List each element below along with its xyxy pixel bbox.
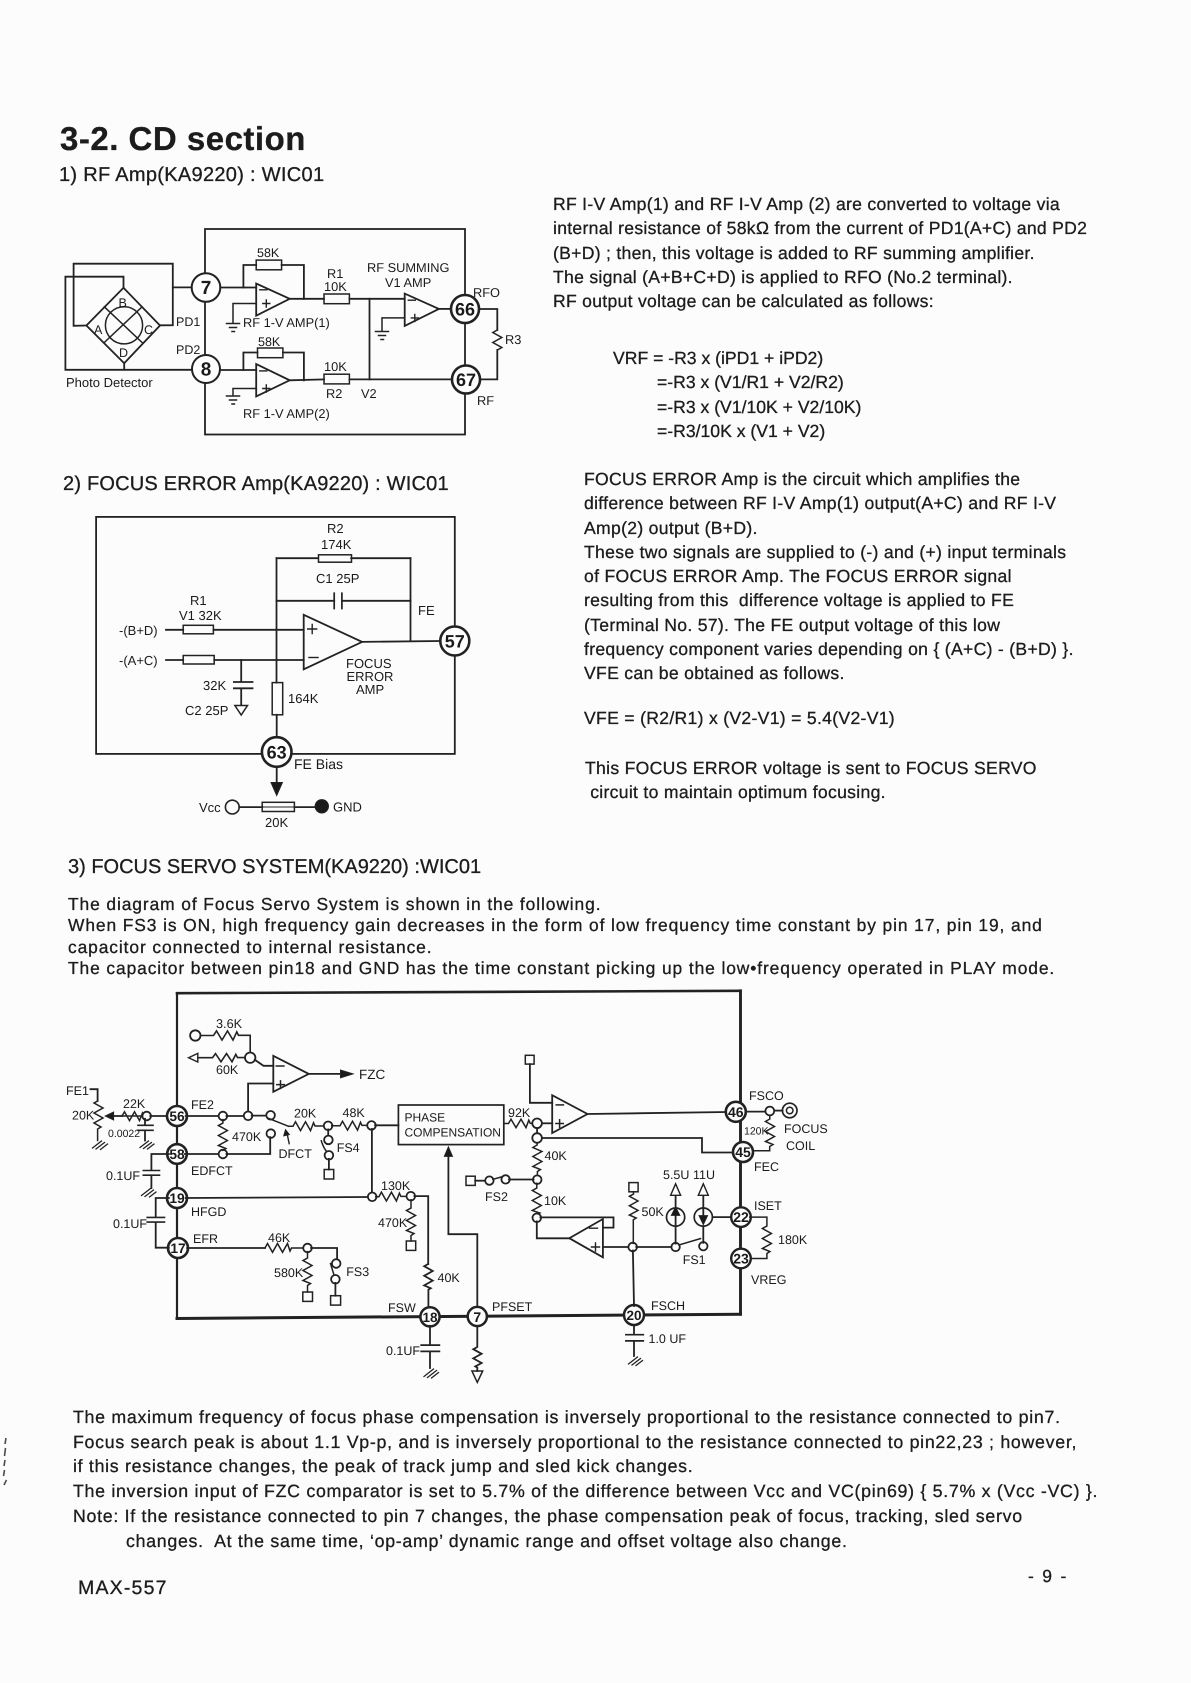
heading 3 <box>68 856 481 879</box>
svg-text:PHASE: PHASE <box>405 1111 446 1125</box>
label 0.1UF mid <box>113 1217 147 1231</box>
svg-text:D: D <box>119 346 128 360</box>
svg-text:130K: 130K <box>381 1179 411 1193</box>
svg-text:0.1UF: 0.1UF <box>386 1344 420 1358</box>
resistor below node 7 servo <box>472 1326 483 1382</box>
resistor 20K <box>239 802 315 811</box>
EDFCT wire <box>185 1153 220 1155</box>
FSCO wire and terminal <box>746 1103 797 1118</box>
label RF 1-V AMP(2) <box>243 406 330 421</box>
op-amp FZC comparator <box>273 1056 309 1092</box>
resistor 580K <box>303 1252 313 1302</box>
resistor R3 zigzag <box>493 330 502 350</box>
svg-text:C1 25P: C1 25P <box>316 571 359 586</box>
FS1 right contact <box>699 1242 707 1250</box>
feedback riser amp1 <box>243 265 256 288</box>
label FS4 <box>337 1141 360 1155</box>
svg-text:20K: 20K <box>265 815 288 830</box>
resistor 164K vertical <box>272 683 283 715</box>
right column paragraph 1 <box>553 192 1087 313</box>
FE2 wire cont2 <box>252 1115 267 1117</box>
wire -(B+D) input <box>166 629 304 631</box>
resistor 92K <box>504 1119 533 1127</box>
comparator FSCH <box>569 1219 603 1257</box>
svg-text:10K: 10K <box>544 1194 567 1208</box>
resistor 58K amp2 <box>258 348 283 358</box>
node 7 <box>192 273 221 302</box>
label FS3 <box>346 1265 369 1279</box>
resistor 130K <box>376 1192 407 1201</box>
svg-text:FSCH: FSCH <box>651 1299 685 1313</box>
FE2 wire cont <box>227 1115 245 1117</box>
label 20K series <box>294 1107 317 1121</box>
label 3.6K <box>216 1017 243 1031</box>
node 58 <box>167 1144 187 1164</box>
svg-text:48K: 48K <box>343 1106 366 1120</box>
feedback riser amp2 <box>243 353 257 371</box>
svg-text:22K: 22K <box>123 1097 146 1111</box>
svg-text:FEC: FEC <box>754 1160 779 1174</box>
node 56 <box>167 1106 187 1126</box>
svg-text:20K: 20K <box>294 1107 317 1121</box>
DFCT switch blade <box>268 1118 289 1126</box>
svg-text:56: 56 <box>169 1109 185 1124</box>
label -(A+C) <box>119 653 158 668</box>
label VREG <box>751 1273 786 1287</box>
svg-text:COIL: COIL <box>786 1139 815 1153</box>
FS1 left contact <box>671 1243 679 1251</box>
node 22 <box>731 1207 751 1227</box>
label R3 <box>505 332 521 347</box>
label 10K above R2 <box>324 359 347 374</box>
resistor R2 10K <box>324 374 349 384</box>
wire 130K to 40K riser <box>414 1196 428 1264</box>
ground hatch pot <box>93 1141 108 1150</box>
EDFCT wire to DFCT <box>227 1137 271 1154</box>
label V1 32K <box>179 608 222 623</box>
label Photo Detector <box>66 375 153 390</box>
resistor lower input <box>183 656 214 665</box>
svg-text:92K: 92K <box>508 1106 531 1120</box>
FE1 lead <box>91 1089 98 1101</box>
label R2 below <box>326 386 342 401</box>
svg-text:Photo Detector: Photo Detector <box>66 375 153 390</box>
svg-text:B: B <box>119 296 127 310</box>
wire node66 to R3 <box>479 309 497 330</box>
svg-text:58K: 58K <box>257 246 280 260</box>
svg-text:32K: 32K <box>203 678 226 693</box>
label 10K chain <box>544 1194 567 1208</box>
op-amp RF summing V1 <box>405 294 439 326</box>
label RFO <box>473 285 500 300</box>
label 0.1UF node18 <box>386 1344 420 1358</box>
svg-text:67: 67 <box>456 370 476 390</box>
svg-text:5.5U: 5.5U <box>663 1168 689 1182</box>
label 48K <box>343 1106 366 1120</box>
svg-text:20K: 20K <box>72 1109 95 1123</box>
FS3 switch <box>331 1259 341 1305</box>
svg-text:17: 17 <box>170 1241 186 1256</box>
junction circle FS4 <box>324 1122 333 1131</box>
svg-text:ISET: ISET <box>754 1199 782 1213</box>
label RF 1-V AMP(1) <box>243 315 330 330</box>
junction circle 92K <box>532 1119 542 1129</box>
label 32K <box>203 678 226 693</box>
svg-text:174K: 174K <box>321 537 352 552</box>
svg-text:58K: 58K <box>258 335 281 349</box>
label 180K <box>778 1233 808 1247</box>
DFCT switch bottom contact <box>267 1129 276 1138</box>
PFSET feedback path with up arrow <box>444 1147 477 1307</box>
DFCT annotation arrow <box>284 1130 290 1144</box>
junction circle 3.6K/60K <box>245 1053 255 1063</box>
junction circle 130K right <box>407 1192 416 1201</box>
label FOCUS COIL <box>784 1122 828 1153</box>
svg-text:FS3: FS3 <box>346 1265 369 1279</box>
label 1.0UF <box>649 1332 687 1346</box>
label 470K <box>232 1130 262 1144</box>
right column paragraph 3 <box>585 756 1037 805</box>
svg-text:580K: 580K <box>274 1266 304 1280</box>
label C2 25P <box>185 703 228 718</box>
resistor 46K <box>265 1244 304 1253</box>
label 5.5U <box>663 1168 689 1182</box>
resistor 40K to FSW <box>424 1264 433 1306</box>
label PD1 <box>176 315 200 329</box>
label FE1 <box>66 1084 89 1098</box>
capacitor 0.1UF node18 <box>421 1326 439 1378</box>
label 164K <box>288 691 319 706</box>
op-amp FSCO driver <box>552 1095 587 1133</box>
label FZC <box>359 1067 385 1082</box>
GND terminal <box>315 800 362 815</box>
node 8 <box>192 355 220 383</box>
svg-text:FE1: FE1 <box>66 1084 89 1098</box>
wire FSCO amp out to node 46 <box>588 1112 727 1114</box>
svg-text:FZC: FZC <box>359 1067 385 1082</box>
svg-text:VREG: VREG <box>751 1273 786 1287</box>
node 63 <box>262 737 292 767</box>
svg-text:20: 20 <box>626 1308 641 1323</box>
label FE <box>418 603 435 618</box>
svg-text:57: 57 <box>445 632 465 652</box>
wire amp2 out to R2 <box>290 378 324 381</box>
op-amp RF 1-V AMP(1) <box>256 284 290 316</box>
resistor 470K lower <box>406 1200 415 1251</box>
photo detector circle <box>105 307 142 344</box>
label 58K amp1 <box>257 246 280 260</box>
wire 50K junction to FS1 <box>636 1246 672 1248</box>
svg-text:RF 1-V AMP(2): RF 1-V AMP(2) <box>243 406 330 421</box>
resistor 22K <box>122 1112 144 1121</box>
label 60K <box>216 1063 239 1077</box>
label EDFCT <box>191 1164 233 1178</box>
svg-text:45: 45 <box>735 1144 751 1160</box>
label PD2 <box>176 343 200 357</box>
heading 1 <box>59 164 324 187</box>
svg-text:EDFCT: EDFCT <box>191 1164 233 1178</box>
label FE Bias <box>294 756 343 772</box>
junction circle FS2 <box>533 1175 542 1184</box>
wire 50K junction down to node 20 <box>633 1251 634 1306</box>
label 120K <box>744 1126 769 1138</box>
node 7 servo <box>468 1307 487 1326</box>
label ISET <box>754 1199 782 1213</box>
FS4 switch <box>321 1129 333 1179</box>
resistor 60K <box>198 1054 245 1062</box>
op-amp FOCUS ERROR AMP <box>304 615 362 670</box>
svg-text:22: 22 <box>733 1209 749 1225</box>
label R1 <box>324 266 347 294</box>
ground summing amp <box>376 318 405 340</box>
label EFR <box>193 1232 218 1246</box>
capacitor C1 <box>277 593 411 608</box>
resistor 3.6K <box>201 1031 251 1053</box>
wire R1 to summing input <box>349 298 404 300</box>
label 580K <box>274 1266 304 1280</box>
svg-text:40K: 40K <box>545 1149 568 1163</box>
label RF <box>477 393 494 408</box>
svg-text:R2: R2 <box>326 386 342 401</box>
feedback right riser <box>410 558 412 641</box>
svg-text:470K: 470K <box>378 1216 408 1230</box>
svg-text:C2 25P: C2 25P <box>185 703 228 718</box>
svg-text:PFSET: PFSET <box>492 1300 533 1314</box>
wire amp1 out to R1 <box>290 298 324 300</box>
svg-text:40K: 40K <box>438 1271 461 1285</box>
current source 5.5U <box>667 1184 685 1244</box>
resistor R1 10K <box>324 294 349 304</box>
node 45 <box>733 1142 753 1162</box>
wire 11U to node 22 <box>712 1216 732 1218</box>
svg-text:AMP: AMP <box>356 682 384 697</box>
label 58K amp2 <box>258 335 281 349</box>
EFR wire <box>187 1247 265 1249</box>
svg-text:-(A+C): -(A+C) <box>119 653 158 668</box>
svg-text:FE: FE <box>418 603 435 618</box>
svg-text:164K: 164K <box>288 691 319 706</box>
label FOCUS ERROR AMP <box>346 656 393 697</box>
FZC output arrow <box>309 1070 353 1078</box>
resistor R2 174K <box>319 555 352 562</box>
svg-text:8: 8 <box>201 360 212 381</box>
junction circle 10K bottom <box>533 1214 542 1223</box>
label 20K pot <box>72 1109 95 1123</box>
junction circle 48K right <box>367 1121 376 1130</box>
svg-text:FSW: FSW <box>388 1301 416 1315</box>
label R1 <box>190 593 207 608</box>
svg-text:46K: 46K <box>268 1231 291 1245</box>
label FSCO <box>749 1089 784 1103</box>
svg-text:7: 7 <box>473 1309 481 1325</box>
label RF SUMMING V1 AMP <box>367 260 449 290</box>
node 18 <box>420 1307 439 1326</box>
IC boundary box schematic2 <box>96 517 455 754</box>
svg-text:66: 66 <box>455 300 475 320</box>
svg-text:FS4: FS4 <box>337 1141 360 1155</box>
wire 164K to node 63 <box>276 715 278 737</box>
resistor 40K vertical chain <box>533 1143 542 1176</box>
footer <box>78 1577 168 1600</box>
label FS1 <box>683 1253 706 1267</box>
svg-text:Vcc: Vcc <box>199 800 221 815</box>
resistor 58K amp1 <box>256 260 281 270</box>
right column paragraph 2 <box>584 467 1074 686</box>
svg-text:60K: 60K <box>216 1063 239 1077</box>
capacitor 0.1UF between 19 and 17 <box>147 1198 169 1248</box>
IC boundary box schematic3 <box>177 991 741 1319</box>
summing junction vertical <box>369 299 371 380</box>
svg-text:19: 19 <box>169 1191 185 1206</box>
svg-text:63: 63 <box>267 743 287 763</box>
label 130K <box>381 1179 411 1193</box>
junction circle 46K right <box>303 1244 312 1253</box>
junction circle FZC plus <box>244 1112 253 1121</box>
svg-text:PD1: PD1 <box>176 315 200 329</box>
feedback right side amp2 <box>283 353 304 381</box>
label 0.0022 <box>108 1128 140 1140</box>
label 174K <box>321 537 352 552</box>
label 0.1UF node58 <box>106 1169 140 1183</box>
wire 10K junction to comparator output <box>537 1221 570 1238</box>
label 11U <box>693 1168 715 1182</box>
bottom paragraph <box>73 1405 1098 1553</box>
photo detector X lines <box>104 307 142 343</box>
wire 46K to FS3 <box>311 1248 337 1260</box>
junction circle FEC tap <box>532 1128 542 1143</box>
FE2 wire <box>186 1115 220 1117</box>
wire into phase box <box>375 1124 398 1126</box>
svg-text:R3: R3 <box>505 332 521 347</box>
servo system paragraph <box>68 894 1055 980</box>
svg-text:FE2: FE2 <box>191 1098 214 1112</box>
VRF equations <box>613 346 861 444</box>
label FSW <box>388 1301 416 1315</box>
svg-text:1.0 UF: 1.0 UF <box>649 1332 687 1346</box>
feedback right side amp1 <box>282 265 304 299</box>
feedback top branch <box>277 557 411 559</box>
svg-text:RFO: RFO <box>473 285 500 300</box>
svg-text:C: C <box>144 323 153 337</box>
svg-text:46: 46 <box>728 1104 744 1120</box>
resistor 48K <box>332 1121 368 1130</box>
capacitor 0.1UF node58 <box>142 1154 169 1197</box>
FZC plus input wire to FE2 <box>248 1084 273 1113</box>
label 22K <box>123 1097 146 1111</box>
arrow below node 63 <box>271 768 282 796</box>
svg-text:0.1UF: 0.1UF <box>113 1217 147 1231</box>
svg-text:0.1UF: 0.1UF <box>106 1169 140 1183</box>
junction circle 50K <box>628 1243 637 1252</box>
svg-text:FS1: FS1 <box>683 1253 706 1267</box>
wire to node 56 <box>150 1115 168 1117</box>
FS2 switch <box>466 1175 534 1185</box>
ground amp1 <box>227 304 257 332</box>
svg-text:COMPENSATION: COMPENSATION <box>405 1125 501 1139</box>
wiper arrow into pot <box>106 1112 123 1120</box>
wire 10K junction to comparator minus <box>540 1217 613 1227</box>
wire -(A+C) input <box>166 659 304 661</box>
resistor 20K series <box>289 1122 325 1131</box>
HFGD wire <box>186 1197 369 1198</box>
feedback left riser <box>276 558 278 682</box>
svg-text:23: 23 <box>733 1251 749 1267</box>
quadrant labels A B C D <box>94 296 153 360</box>
svg-text:V1 32K: V1 32K <box>179 608 222 623</box>
potentiometer 20K body <box>94 1101 103 1141</box>
IC boundary box schematic1 <box>205 229 465 435</box>
label FSCH <box>651 1299 685 1313</box>
DFCT switch top contact <box>266 1111 275 1120</box>
node 19 <box>167 1188 187 1208</box>
svg-text:180K: 180K <box>778 1233 808 1247</box>
label 50K <box>642 1205 665 1219</box>
junction circle 130K left <box>368 1193 377 1202</box>
node 57 <box>440 627 469 656</box>
wire detector to node 7 <box>173 286 192 288</box>
resistor 180K <box>750 1217 772 1258</box>
resistor 50K <box>629 1183 638 1244</box>
svg-text:DFCT: DFCT <box>279 1147 313 1161</box>
label -(B+D) <box>119 623 158 638</box>
PHASE COMPENSATION box <box>398 1105 503 1145</box>
svg-text:GND: GND <box>333 800 362 815</box>
node 23 <box>731 1249 751 1269</box>
op-amp RF 1-V AMP(2) <box>256 364 290 396</box>
svg-text:RF 1-V AMP(1): RF 1-V AMP(1) <box>243 315 330 330</box>
wire 92K to amp plus <box>542 1122 552 1124</box>
left open arrow 60K <box>189 1053 198 1062</box>
svg-text:V2: V2 <box>361 386 377 401</box>
wire node8 to amp2 inverting input <box>220 369 256 371</box>
resistor 10K chain <box>532 1183 541 1214</box>
junction circle 470K bottom <box>219 1150 228 1159</box>
capacitor 1.0UF node20 <box>626 1326 643 1365</box>
label C1 25P <box>316 571 359 586</box>
svg-text:50K: 50K <box>642 1205 665 1219</box>
svg-text:58: 58 <box>169 1147 185 1162</box>
svg-text:10K: 10K <box>324 359 347 374</box>
wire junction to FZC comparator <box>255 1060 273 1066</box>
wire summing out to node 66 <box>439 308 451 310</box>
svg-text:RF: RF <box>477 393 494 408</box>
ground amp2 <box>227 389 257 405</box>
label R2 <box>327 521 344 536</box>
label FEC <box>754 1160 779 1174</box>
heading 2 <box>63 473 449 496</box>
FEC wire to node 45 <box>542 1138 733 1153</box>
photo detector outer rect lower <box>65 277 191 370</box>
capacitor 0.0022 <box>138 1119 154 1149</box>
resistor 470K vertical <box>218 1120 227 1151</box>
svg-text:FS2: FS2 <box>485 1190 508 1204</box>
label 46K <box>268 1231 291 1245</box>
svg-text:0.0022: 0.0022 <box>108 1128 140 1140</box>
label DFCT <box>279 1147 313 1161</box>
svg-text:RF SUMMING: RF SUMMING <box>367 260 449 275</box>
node 46 <box>726 1102 746 1122</box>
svg-text:10K: 10K <box>324 279 347 294</box>
label 20K <box>265 815 288 830</box>
label 40K FSW <box>438 1271 461 1285</box>
label 470K lower <box>378 1216 408 1230</box>
svg-text:FE Bias: FE Bias <box>294 756 343 772</box>
svg-text:470K: 470K <box>232 1130 262 1144</box>
wire comparator plus to 50K junction <box>603 1246 629 1248</box>
svg-text:FOCUS: FOCUS <box>784 1122 828 1136</box>
svg-text:3.6K: 3.6K <box>216 1017 243 1031</box>
junction circle 470K top <box>219 1112 228 1121</box>
